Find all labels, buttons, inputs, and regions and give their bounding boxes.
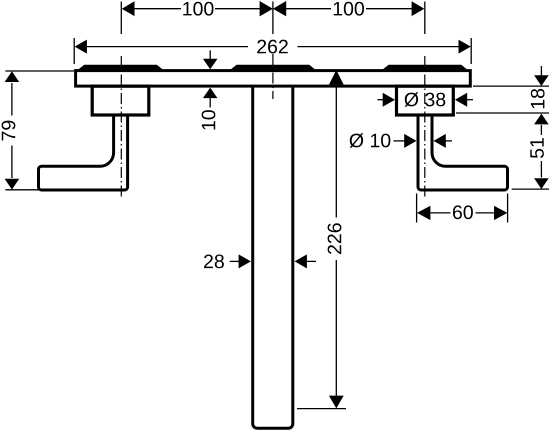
arrow bowtie center right	[273, 1, 286, 16]
dim 28 right tail	[306, 260, 317, 262]
raised pad right	[380, 65, 470, 72]
extension line 262 right	[470, 38, 472, 64]
spout (center vertical)	[253, 85, 293, 428]
centerline right handle	[424, 56, 426, 199]
arrow 28 pointing left	[295, 254, 307, 268]
arrow 226 down (at spout end)	[329, 396, 344, 409]
dim O10 left tail	[394, 140, 406, 142]
label 100 right	[334, 2, 364, 16]
label 18 (rotated)	[531, 89, 545, 108]
left escutcheon	[92, 86, 149, 115]
wall plate outline	[76, 71, 471, 87]
arrow 100 far-left	[122, 1, 135, 16]
dim line 100 right segments	[285, 8, 331, 10]
dim O38 left tail	[378, 99, 385, 101]
centerlines dash-dot	[121, 54, 425, 199]
extension line lever bottom right	[512, 188, 549, 190]
leader 10 below	[209, 98, 211, 108]
right escutcheon	[397, 86, 454, 115]
extension line 262 left	[73, 38, 75, 64]
dim O10 right tail	[445, 140, 452, 142]
label 51 (rotated)	[530, 138, 544, 158]
extension line 60 right	[507, 194, 509, 223]
arrow 28 pointing right	[239, 254, 251, 268]
extension line handle-right center (top)	[424, 2, 426, 35]
extension line spout center (top)	[272, 2, 274, 35]
arrow 60 pointing left	[417, 206, 430, 220]
arrow 51 down (lever bottom)	[534, 178, 549, 189]
arrow 100 far-right	[412, 1, 425, 16]
extension line spout end	[297, 408, 346, 410]
arrow O10 pointing left	[434, 134, 446, 148]
extension line plate top left	[5, 70, 74, 72]
arrow bowtie center left	[260, 1, 273, 16]
label 10 (rotated)	[202, 110, 216, 129]
extension line lever bottom left	[5, 189, 41, 191]
label 262	[257, 40, 288, 54]
dim O38 right tail	[466, 99, 473, 101]
label 226 (rotated)	[328, 223, 342, 254]
left handle stem and lever	[39, 112, 128, 190]
arrow 79 up (plate top)	[5, 71, 20, 82]
right column upper leader	[540, 66, 542, 76]
arrow 10 down (above plate)	[203, 59, 218, 69]
arrow 79 down (lever bottom)	[5, 179, 20, 190]
extension line handle-left center (top)	[120, 2, 122, 35]
arrow 226 up (at plate)	[329, 70, 344, 85]
right handle stem and lever	[418, 112, 508, 190]
dim line 100 left segments	[133, 8, 181, 10]
dim line 226 lower	[335, 260, 337, 397]
raised pad center	[228, 65, 318, 72]
arrow 262 left	[75, 40, 87, 54]
dim line 60 segments	[431, 212, 451, 214]
centerline spout	[272, 54, 274, 99]
leader 10 above	[209, 50, 211, 59]
dim line 79 lower	[11, 146, 13, 179]
arrow 10 up (below plate)	[203, 88, 218, 99]
dim line 51 lower	[540, 161, 542, 178]
extension line 60 left	[416, 194, 418, 223]
dim line 226 upper	[335, 86, 337, 218]
arrow O38 pointing right	[383, 93, 395, 107]
label 28	[204, 254, 224, 268]
arrow 262 right	[459, 40, 471, 54]
raised pad left (on plate top)	[75, 65, 165, 72]
arrow O38 pointing left	[455, 93, 467, 107]
extension line escutcheon bottom right	[456, 112, 549, 114]
dim line 79 upper	[11, 83, 13, 116]
extension line plate bottom right	[473, 85, 549, 87]
arrow O10 pointing right	[404, 134, 416, 148]
label 79 (rotated)	[2, 121, 16, 141]
label O38	[405, 92, 446, 106]
arrow 60 pointing right	[494, 206, 507, 220]
dim line 262 segments	[86, 46, 248, 48]
dim line 51 upper	[540, 125, 542, 135]
dim 28 left tail	[230, 260, 240, 262]
arrow 18/51 up (escutcheon bottom)	[534, 114, 549, 125]
label 60	[453, 205, 473, 219]
centerline left handle	[120, 56, 122, 199]
label 100 left	[183, 2, 213, 16]
arrow 18 down (plate bottom)	[534, 75, 549, 86]
label O10	[350, 133, 391, 147]
